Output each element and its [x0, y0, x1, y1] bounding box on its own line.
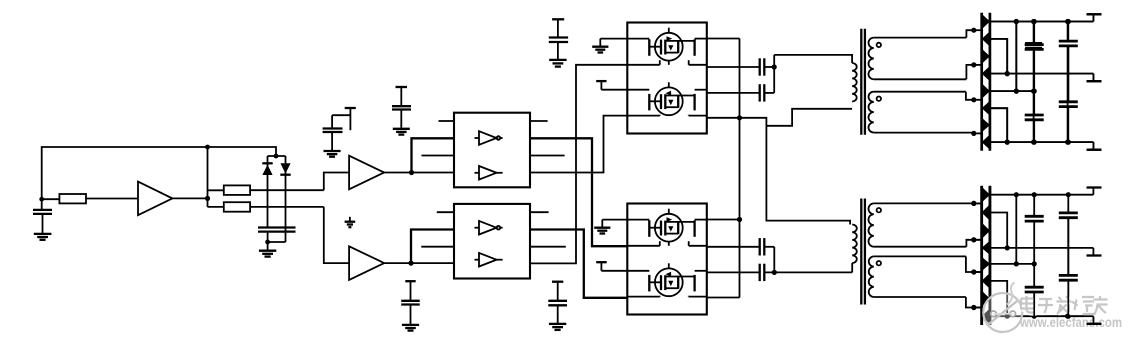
wire rail minus	[990, 141, 1094, 143]
wire stub junction	[974, 239, 982, 241]
pin stub U4 left pin3	[422, 155, 455, 157]
diode D1 (zener up)	[262, 156, 272, 228]
capacitor C5 with terminal	[401, 281, 420, 325]
node J junction dot	[772, 64, 777, 69]
node dot	[971, 269, 976, 274]
wire op-amp out	[172, 197, 207, 199]
wire pin + ground	[594, 220, 627, 234]
node I junction dot	[737, 217, 742, 222]
wire top feedback	[42, 147, 276, 199]
wire jog upper pair	[990, 213, 1007, 248]
wire column restored	[1033, 295, 1035, 316]
diode D3	[982, 49, 990, 64]
node dot	[971, 201, 976, 206]
diode D11	[982, 223, 990, 239]
capacitor filter c2a	[1025, 195, 1044, 264]
diode D1	[982, 14, 990, 29]
diode D4	[982, 66, 990, 81]
pin stub M-B right pin1	[707, 219, 740, 221]
diode rail left	[980, 186, 983, 325]
wire cap junction vertical	[773, 247, 775, 273]
diode D2	[982, 31, 990, 46]
node G junction dot	[408, 261, 413, 266]
wire rail minus restored	[1046, 315, 1093, 317]
wire stub junction	[974, 239, 982, 241]
wire rail plus	[990, 21, 1094, 23]
wire U4 pin4 to upper MOSFET box	[530, 116, 627, 173]
wire stub junction	[974, 132, 982, 134]
transistor Q1	[627, 28, 707, 65]
wire pin + ground	[592, 39, 627, 53]
wire stub junction	[974, 271, 982, 273]
wire rail three	[990, 263, 1034, 265]
diode D6	[982, 101, 990, 116]
wire U4 pin2 to lower MOSFET gate	[530, 138, 627, 246]
terminal T3 pin	[596, 262, 627, 271]
resistor R2	[208, 185, 324, 195]
wire rail minus	[990, 315, 1094, 317]
wire U5 pin2 to lower MOSFET box pin4	[530, 230, 627, 298]
terminal minus	[1087, 142, 1102, 150]
transformer T1 core	[861, 29, 865, 135]
capacitor filter column 2	[1025, 22, 1042, 143]
transformer T1 secondary 2	[869, 92, 974, 133]
diode D14	[982, 273, 990, 289]
wire staircase to T1 primary bottom	[766, 109, 852, 126]
wire to driver pin2	[412, 138, 455, 172]
diode D13	[982, 257, 990, 271]
pin stub U5 right pin1	[530, 211, 549, 213]
terminal minus	[1087, 142, 1102, 150]
transistor Q2	[627, 82, 707, 115]
capacitor C1	[33, 199, 52, 233]
diode D15	[982, 291, 990, 307]
diode D2 (zener down)	[280, 156, 290, 242]
node D junction dot	[274, 154, 279, 159]
terminal T1 and capacitor C3	[323, 108, 356, 151]
transformer T2 secondary 1	[869, 203, 974, 246]
capacitor filter c2b	[1025, 91, 1044, 142]
capacitor filter c2a	[1025, 22, 1044, 92]
wire rail plus	[990, 21, 1094, 23]
watermark logo diagonal	[987, 301, 1017, 326]
diode D8	[982, 134, 990, 149]
wire jog upper pair	[990, 39, 1007, 74]
wire buffer2 out	[384, 262, 454, 264]
diode D5	[982, 83, 990, 99]
wire stub junction	[974, 307, 982, 309]
ground	[393, 129, 410, 135]
diode D9	[982, 187, 990, 203]
node dot	[971, 237, 976, 242]
node C junction dot	[205, 196, 210, 201]
diode D12	[982, 241, 990, 255]
diode D11	[982, 223, 990, 239]
capacitor filter c3b	[1059, 46, 1078, 142]
wire stub junction	[974, 202, 982, 204]
driver U4 box	[454, 113, 530, 188]
ground	[402, 325, 419, 331]
resistor R3	[208, 202, 324, 212]
glyph 友	[1094, 296, 1108, 314]
pin stub M-B right pin4	[707, 297, 740, 299]
driver U5 box	[454, 204, 530, 279]
diode rail left	[980, 186, 983, 325]
wire T2 primary bottom lead	[851, 263, 853, 272]
MOSFET box M-B	[627, 204, 707, 315]
capacitor C11	[707, 264, 852, 281]
glyph 子	[1038, 299, 1053, 313]
diode rail right	[989, 13, 992, 151]
node A junction dot	[205, 145, 210, 150]
diode D16	[982, 309, 990, 325]
watermark logo bar	[994, 313, 1013, 315]
capacitor C6 with terminal	[549, 19, 568, 59]
terminal minus restored	[1092, 316, 1094, 324]
MOSFET box M-A	[627, 23, 707, 134]
terminal mid	[1087, 248, 1102, 256]
wire rail minus	[990, 141, 1094, 143]
wire stub junction	[974, 99, 982, 101]
wire filter column 1	[1015, 22, 1017, 92]
node dot	[971, 28, 976, 33]
wire filter column 1	[1015, 195, 1017, 264]
wire stub junction	[974, 64, 982, 66]
wire jog lower pair	[990, 108, 1007, 142]
terminal minus	[1087, 316, 1102, 324]
node dot restored	[1065, 314, 1070, 319]
terminal mid	[1087, 74, 1102, 82]
capacitor C2	[258, 228, 296, 251]
diode D13	[982, 257, 990, 271]
wire filter column 1	[1015, 22, 1017, 92]
wire stub junction	[974, 29, 982, 31]
diode D16	[982, 309, 990, 325]
diode rail left	[980, 13, 983, 151]
terminal plus	[1087, 188, 1102, 195]
wire jog lower pair	[990, 281, 1007, 316]
wire diode pair top	[268, 155, 286, 157]
capacitor filter c3b	[1059, 218, 1078, 317]
node dot	[971, 269, 976, 274]
pin stub U5 left pin3	[421, 246, 454, 248]
node H junction dot	[737, 115, 742, 120]
capacitor filter c2b	[1025, 264, 1044, 316]
wire rail three	[990, 90, 1034, 92]
op-amp U1	[138, 182, 172, 216]
terminal plus	[1087, 14, 1102, 21]
node K junction dot	[772, 270, 777, 275]
capacitor filter column 3	[1059, 22, 1076, 143]
wire to driver pin2 lower	[411, 230, 454, 264]
glyph 烧	[1072, 297, 1096, 314]
capacitor C8	[707, 58, 774, 75]
buffer inside U5 upper	[475, 221, 503, 235]
node dot	[971, 237, 976, 242]
transformer T2 secondary 2	[869, 256, 974, 307]
buffer inside U4 lower	[475, 166, 503, 180]
node E junction dot	[265, 240, 270, 245]
resistor R1	[42, 194, 138, 203]
capacitor filter c3a	[1059, 22, 1078, 102]
wire cap junction to T1 primary top	[774, 55, 852, 93]
node dot	[971, 305, 976, 310]
diode D7	[982, 118, 990, 133]
wire buffer1 out	[384, 172, 454, 174]
buffer inside U5 lower	[475, 253, 503, 267]
node dot	[971, 97, 976, 102]
wire stub junction	[974, 307, 982, 309]
terminal mid	[1087, 74, 1102, 82]
diode D10	[982, 204, 990, 220]
wire stub junction	[974, 202, 982, 204]
transformer T1 secondary 1	[868, 30, 973, 79]
wire W-chain to transformer T1 top / T2 top	[740, 118, 851, 225]
pin stub M-A right pin4	[707, 117, 740, 119]
pin stub U5 left pin1	[437, 211, 454, 213]
wire V-chain upper MOSFET mid to U5 pin4	[530, 65, 627, 264]
capacitor filter c3a	[1059, 195, 1078, 276]
diode D14	[982, 273, 990, 289]
capacitor C9	[707, 84, 774, 101]
capacitor C7 with terminal	[548, 282, 567, 324]
buffer inside U4 upper	[475, 131, 503, 145]
glyph 发	[1057, 296, 1072, 314]
transistor Q4	[627, 263, 707, 296]
transistor Q3	[627, 209, 707, 246]
node B junction dot	[39, 197, 44, 202]
wire stub junction	[974, 271, 982, 273]
ground	[34, 234, 52, 240]
diode D10	[982, 204, 990, 220]
wire jog down to buffer 2	[324, 207, 349, 263]
node F junction dot	[409, 170, 414, 175]
wire rail plus	[990, 194, 1094, 196]
wire rail mid	[990, 73, 1094, 75]
pin stub U4 right pin1	[530, 120, 548, 122]
diode D12	[982, 241, 990, 255]
capacitor C10	[707, 238, 775, 255]
capacitor C4 with terminal	[392, 87, 411, 129]
node dot	[971, 62, 976, 67]
watermark logo eye left	[991, 311, 997, 317]
diode rail right	[989, 186, 992, 325]
pin stub M-A right pin1	[707, 38, 740, 40]
node dot	[971, 305, 976, 310]
glyph 电	[1020, 296, 1035, 313]
transformer T2 core	[861, 199, 865, 305]
ground	[549, 324, 566, 330]
terminal T2 pin	[596, 81, 627, 90]
transformer T1 primary winding	[852, 63, 857, 101]
diode rail right	[989, 186, 992, 325]
buffer U2	[349, 156, 384, 190]
wire jog upper	[990, 39, 1007, 74]
pin stub U4 left pin1	[439, 120, 455, 122]
watermark logo squiggle	[1007, 283, 1015, 305]
wire rail mid	[990, 73, 1094, 75]
wire jog lower	[990, 108, 1007, 142]
pin stub U4 right pin3	[530, 155, 565, 157]
transformer T2 primary winding	[852, 225, 857, 264]
ground mid	[345, 217, 356, 227]
ground	[259, 251, 276, 257]
buffer U3	[349, 246, 384, 280]
pin stub U5 right pin3	[530, 246, 566, 248]
watermark logo eye right	[1010, 311, 1016, 317]
diode D9	[982, 187, 990, 203]
wire rail three	[990, 90, 1034, 92]
terminal plus	[1087, 14, 1102, 21]
ground	[324, 151, 341, 157]
diode D15	[982, 291, 990, 307]
wire right bus vertical	[739, 39, 741, 298]
node dot	[971, 201, 976, 206]
ground	[549, 60, 566, 67]
watermark logo disc	[983, 293, 1022, 332]
node dot	[971, 131, 976, 136]
wire rail mid	[990, 247, 1094, 249]
wire jog up to buffer 1	[324, 173, 349, 191]
wire branch vertical	[207, 147, 209, 207]
